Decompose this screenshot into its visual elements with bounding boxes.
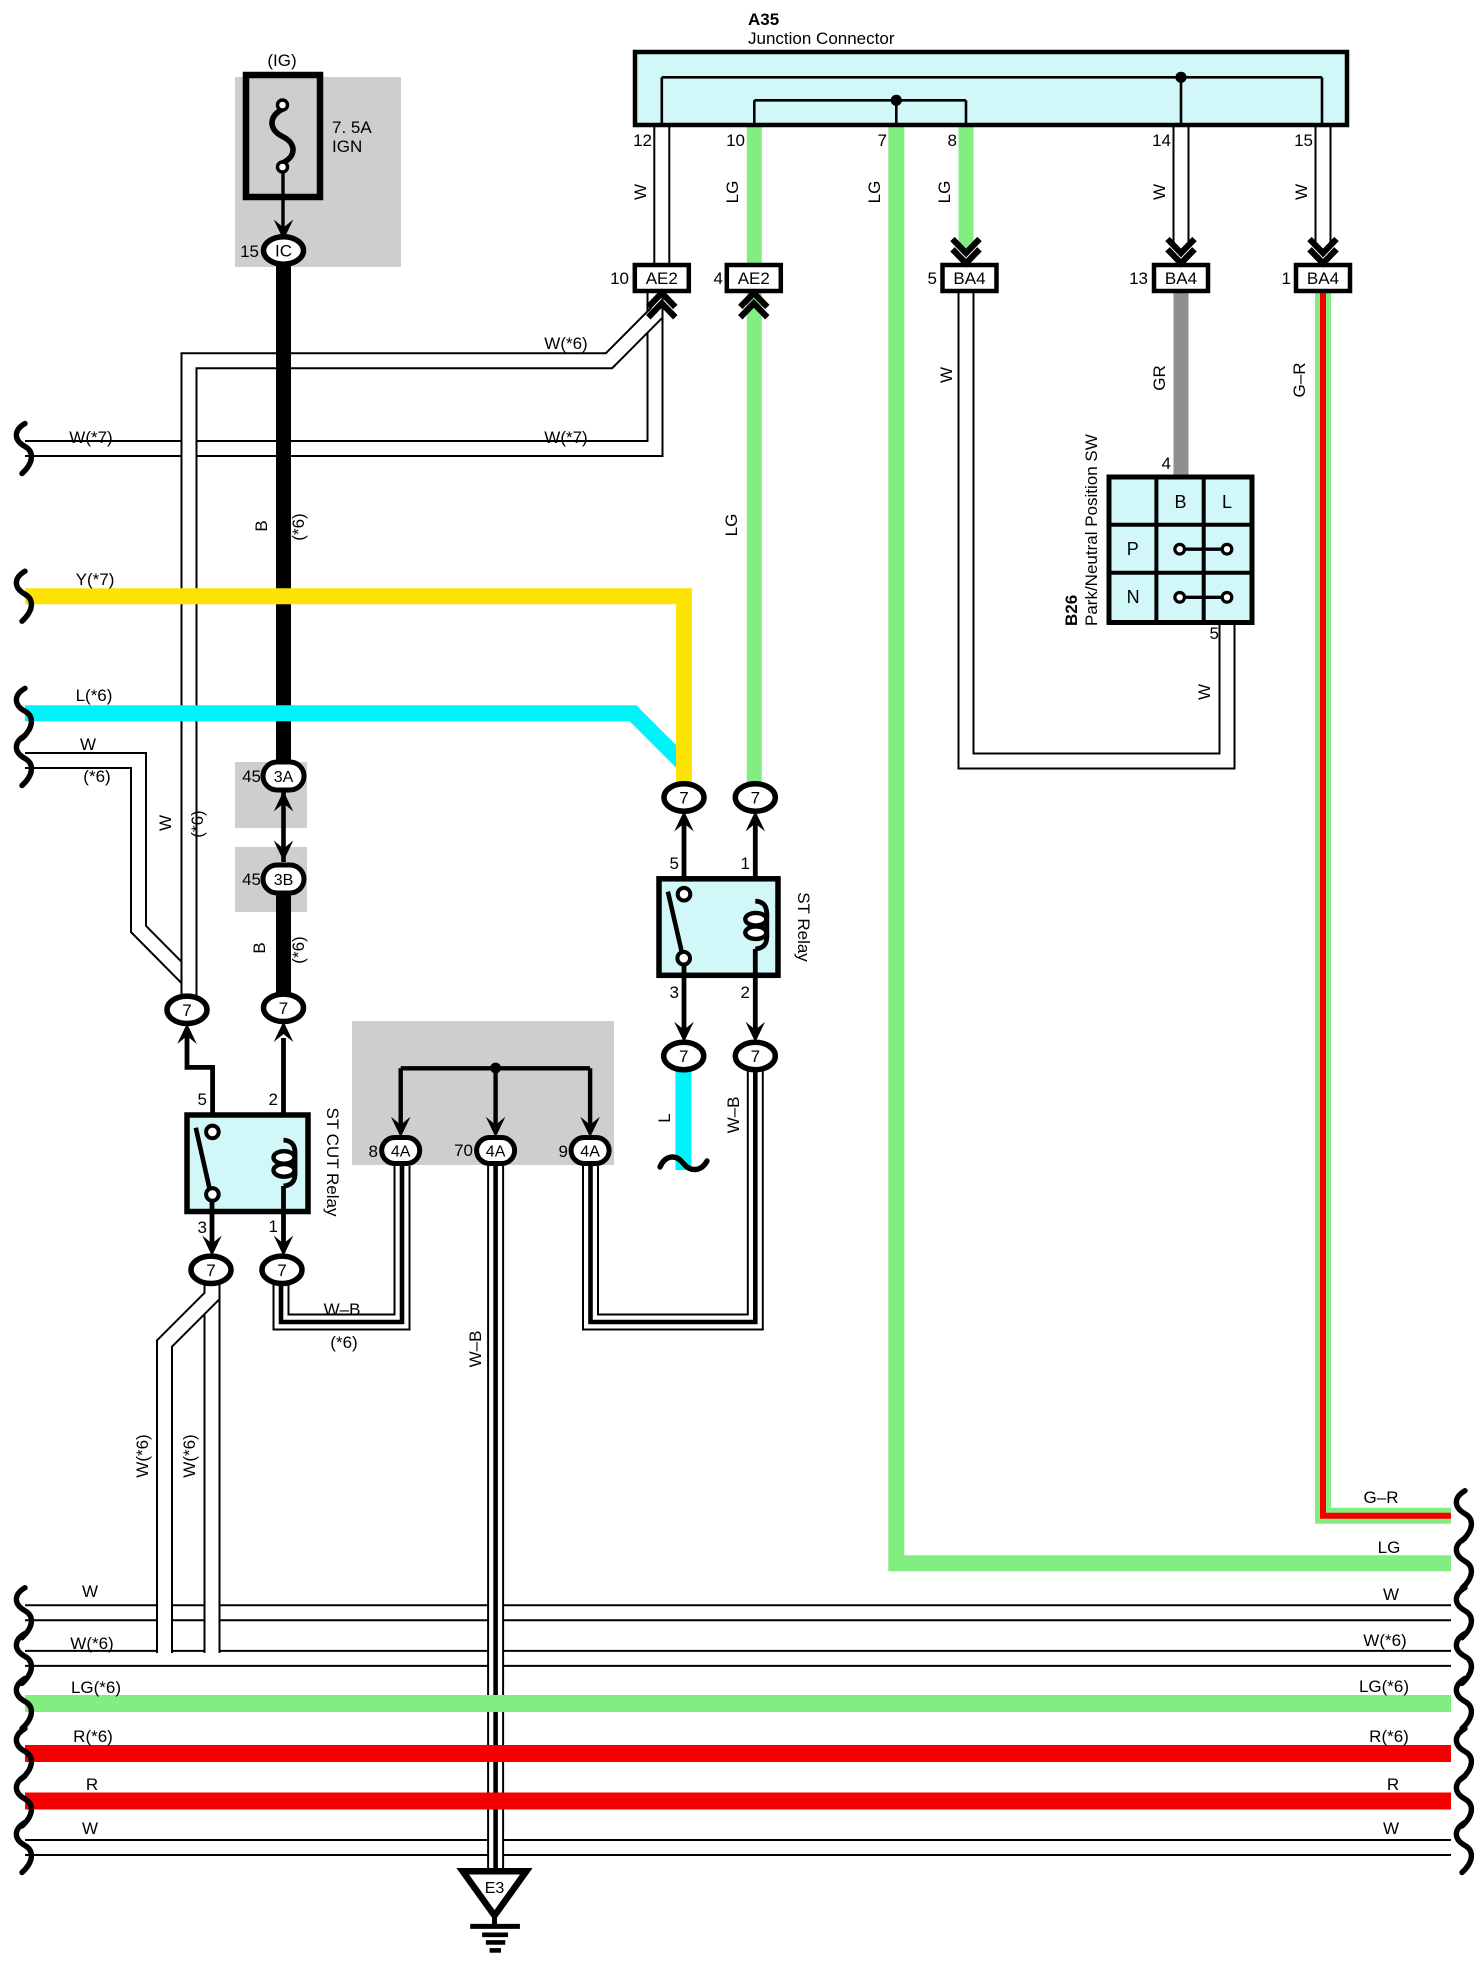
svg-text:10: 10 bbox=[610, 269, 629, 288]
svg-text:R: R bbox=[1387, 1775, 1399, 1794]
arrow from ST CUT pin3 bbox=[202, 1236, 222, 1257]
break symbol right edge y1563 bbox=[1456, 1538, 1471, 1588]
arrow into junction 7 yellow bbox=[674, 811, 694, 832]
wire W-B from 4A-70 to ground E3 bbox=[487, 1166, 504, 1868]
svg-text:3: 3 bbox=[198, 1218, 207, 1237]
wire ST CUT pin3 bbox=[210, 1199, 215, 1250]
wire LG pin10 A35 through AE2-4 to ST relay bbox=[747, 124, 762, 785]
svg-text:N: N bbox=[1127, 587, 1140, 607]
connector 3A bbox=[263, 762, 304, 790]
arrow into 3A bbox=[274, 791, 294, 812]
svg-text:W: W bbox=[156, 815, 175, 831]
svg-text:W: W bbox=[82, 1582, 98, 1601]
ground bar 3 bbox=[486, 1940, 505, 1945]
black tracer of W-B wires bbox=[281, 1068, 755, 1868]
connector 4A-70 bbox=[477, 1138, 515, 1164]
wire L cyan below ST relay pin3 bbox=[675, 1068, 691, 1170]
connector BA4 pin5 box bbox=[928, 265, 997, 291]
fuse 7.5A IGN box bbox=[246, 75, 320, 197]
svg-text:IGN: IGN bbox=[332, 137, 362, 156]
svg-text:7: 7 bbox=[182, 1001, 191, 1020]
svg-text:(*6): (*6) bbox=[188, 810, 207, 837]
4A internal bus bbox=[401, 1063, 590, 1131]
arrow into 4A-8 bbox=[391, 1117, 411, 1138]
svg-text:3: 3 bbox=[670, 983, 679, 1002]
svg-text:W–B: W–B bbox=[466, 1331, 485, 1368]
svg-text:4A: 4A bbox=[391, 1144, 411, 1161]
svg-text:P: P bbox=[1127, 539, 1139, 559]
ground wire stem bbox=[492, 1911, 497, 1926]
svg-text:W(*7): W(*7) bbox=[544, 428, 587, 447]
svg-text:W(*6): W(*6) bbox=[133, 1434, 152, 1477]
wire ST CUT pin5 bbox=[187, 1036, 213, 1127]
bus wire R lower bbox=[25, 1793, 1451, 1810]
junction 7 green bbox=[735, 784, 775, 811]
arrow into BA4-1 bbox=[1310, 239, 1337, 263]
svg-text:1: 1 bbox=[741, 854, 750, 873]
svg-text:5: 5 bbox=[198, 1090, 207, 1109]
svg-text:B: B bbox=[1174, 492, 1186, 512]
arrow into AE2-10 bbox=[648, 293, 675, 317]
junction 7 below ST relay pin3 bbox=[664, 1042, 704, 1069]
junction 7 below ST CUT pin3 bbox=[191, 1256, 231, 1283]
connector 3B bbox=[263, 865, 304, 893]
svg-text:W–B: W–B bbox=[724, 1097, 743, 1134]
svg-text:LG: LG bbox=[935, 181, 954, 204]
ST relay coil bbox=[745, 901, 767, 949]
svg-text:B: B bbox=[252, 520, 271, 531]
svg-text:BA4: BA4 bbox=[1307, 269, 1339, 288]
svg-text:A35: A35 bbox=[748, 10, 779, 29]
svg-text:W: W bbox=[80, 735, 96, 754]
svg-text:W: W bbox=[1383, 1585, 1399, 1604]
ST relay box bbox=[659, 879, 778, 976]
svg-text:70: 70 bbox=[454, 1141, 473, 1160]
wire LG pin7 A35 long run to right edge bbox=[896, 124, 1451, 1563]
wire G-R red tracer bbox=[1323, 291, 1451, 1516]
svg-text:LG: LG bbox=[865, 181, 884, 204]
svg-text:BA4: BA4 bbox=[953, 269, 985, 288]
svg-text:4: 4 bbox=[714, 269, 723, 288]
svg-text:R(*6): R(*6) bbox=[1369, 1727, 1409, 1746]
svg-text:5: 5 bbox=[1210, 624, 1219, 643]
svg-text:10: 10 bbox=[726, 131, 745, 150]
bus wire W(*6) lower bbox=[25, 1650, 1451, 1667]
svg-text:7: 7 bbox=[679, 1047, 688, 1066]
svg-text:(*6): (*6) bbox=[83, 767, 110, 786]
ST CUT relay coil bbox=[274, 1140, 296, 1186]
bus wire LG(*6) lower bbox=[25, 1695, 1451, 1712]
wire W(*6) from AE2-10 diagonal to left vertical run bbox=[189, 313, 657, 996]
break symbol right edge y1801 bbox=[1456, 1776, 1471, 1826]
svg-text:AE2: AE2 bbox=[646, 269, 678, 288]
svg-text:W(*6): W(*6) bbox=[180, 1434, 199, 1477]
wire W pin14 A35 to BA4-13 bbox=[1173, 124, 1190, 249]
ground bar 1 bbox=[470, 1924, 520, 1929]
junction connector A35 box with internal buses bbox=[635, 52, 1347, 125]
wire ST relay pin1 bbox=[753, 817, 758, 901]
bus wire W bottom bbox=[25, 1839, 1451, 1856]
svg-text:7: 7 bbox=[279, 999, 288, 1018]
bus wire R(*6) lower bbox=[25, 1745, 1451, 1762]
arrow from ST CUT pin1 bbox=[274, 1236, 294, 1257]
svg-text:2: 2 bbox=[741, 983, 750, 1002]
arrow from ST relay pin2 bbox=[746, 1022, 766, 1043]
svg-text:LG(*6): LG(*6) bbox=[1359, 1677, 1409, 1696]
junction 7 below ST relay pin2 bbox=[735, 1042, 775, 1069]
svg-text:(IG): (IG) bbox=[267, 51, 296, 70]
wire W from BA4-5 to B26 pin5 bbox=[966, 291, 1227, 761]
svg-text:9: 9 bbox=[559, 1142, 568, 1161]
svg-text:45: 45 bbox=[242, 870, 261, 889]
wire W-B from ST CUT relay pin1 to 4A-8 bbox=[281, 1166, 402, 1322]
wire link 3A to 3B bbox=[281, 788, 286, 862]
svg-text:7. 5A: 7. 5A bbox=[332, 118, 372, 137]
wire ST relay pin3 bbox=[682, 963, 687, 1037]
wire W pin15 A35 to BA4-1 bbox=[1315, 124, 1332, 249]
svg-text:R: R bbox=[86, 1775, 98, 1794]
arrow into 3B bbox=[274, 841, 294, 862]
connector AE2 pin4 box bbox=[714, 265, 781, 291]
break symbol left edge y1658 bbox=[16, 1633, 31, 1683]
wire W(*6) straight from ST CUT relay pin3 bbox=[204, 1282, 221, 1653]
svg-text:W: W bbox=[1195, 684, 1214, 700]
svg-text:4A: 4A bbox=[580, 1144, 600, 1161]
break symbol right edge y1612 bbox=[1456, 1588, 1471, 1638]
arrow into BA4-13 bbox=[1168, 239, 1195, 263]
svg-text:G–R: G–R bbox=[1364, 1488, 1399, 1507]
connector 4A-9 bbox=[571, 1138, 609, 1164]
svg-text:7: 7 bbox=[206, 1261, 215, 1280]
svg-text:W: W bbox=[1150, 184, 1169, 200]
connector IC junction bbox=[264, 237, 304, 264]
svg-text:(*6): (*6) bbox=[289, 513, 308, 540]
arrow into junction 7 right bbox=[274, 1022, 294, 1043]
switch B26 box grid bbox=[1109, 477, 1252, 623]
junction 7 below ST CUT pin1 bbox=[262, 1256, 302, 1283]
svg-text:3B: 3B bbox=[274, 872, 294, 889]
wire Y(*7) yellow from left edge to junction 7 bbox=[25, 596, 684, 785]
junction 7 left bbox=[167, 996, 207, 1023]
svg-text:W: W bbox=[1383, 1819, 1399, 1838]
svg-text:(*6): (*6) bbox=[289, 936, 308, 963]
arrow into 4A-9 bbox=[580, 1117, 600, 1138]
wire W pin12 A35 to AE2-10 bbox=[653, 124, 670, 264]
break symbol left edge y1612 bbox=[16, 1588, 31, 1638]
svg-text:7: 7 bbox=[277, 1261, 286, 1280]
svg-text:12: 12 bbox=[633, 131, 652, 150]
svg-text:W: W bbox=[82, 1819, 98, 1838]
wire ST relay pin5 bbox=[682, 817, 687, 889]
arrow into 4A-70 bbox=[486, 1117, 506, 1138]
wire LG pin8 A35 stub to BA4-5 bbox=[959, 124, 974, 249]
svg-text:W: W bbox=[1292, 184, 1311, 200]
break symbol right edge y1515 bbox=[1456, 1491, 1471, 1541]
break symbol left edge y1703 bbox=[16, 1679, 31, 1729]
ground bar 2 bbox=[482, 1933, 508, 1938]
connector 3B background panel bbox=[235, 847, 307, 912]
connector 4A-8 bbox=[382, 1138, 420, 1164]
wire G-R green part from BA4-1 to right edge bbox=[1323, 291, 1451, 1516]
svg-text:W(*6): W(*6) bbox=[70, 1634, 113, 1653]
svg-text:4: 4 bbox=[1162, 454, 1171, 473]
break symbol left edge y448 bbox=[16, 424, 31, 474]
svg-text:W(*7): W(*7) bbox=[69, 428, 112, 447]
connector BA4 pin13 box bbox=[1129, 265, 1208, 291]
bus wire W lower bbox=[25, 1604, 1451, 1621]
svg-text:G–R: G–R bbox=[1290, 363, 1309, 398]
B26 contact N bbox=[1175, 593, 1232, 603]
svg-text:3A: 3A bbox=[274, 769, 294, 786]
svg-text:7: 7 bbox=[679, 789, 688, 808]
fuse element bbox=[272, 100, 293, 172]
break symbol right edge y1753 bbox=[1456, 1729, 1471, 1779]
arrow into junction 7 green bbox=[746, 811, 766, 832]
arrow into AE2-4 bbox=[740, 293, 767, 317]
connector AE2 pin10 box bbox=[610, 265, 689, 291]
svg-text:7: 7 bbox=[878, 131, 887, 150]
svg-text:8: 8 bbox=[369, 1142, 378, 1161]
wire L(*6) cyan from left edge bbox=[25, 713, 682, 762]
svg-text:W–B: W–B bbox=[324, 1300, 361, 1319]
break symbol left edge y1847 bbox=[16, 1823, 31, 1873]
svg-text:ST CUT Relay: ST CUT Relay bbox=[323, 1108, 342, 1217]
svg-text:L: L bbox=[1222, 492, 1232, 512]
break symbol left edge y1801 bbox=[16, 1776, 31, 1826]
svg-text:5: 5 bbox=[928, 269, 937, 288]
connector BA4 pin1 box bbox=[1282, 265, 1350, 291]
svg-text:GR: GR bbox=[1150, 365, 1169, 391]
break symbol left edge y760 bbox=[16, 736, 31, 786]
svg-text:W: W bbox=[631, 184, 650, 200]
svg-text:14: 14 bbox=[1152, 131, 1171, 150]
B26 contact P bbox=[1175, 544, 1232, 554]
svg-text:W: W bbox=[937, 367, 956, 383]
svg-text:LG: LG bbox=[722, 514, 741, 537]
svg-text:2: 2 bbox=[269, 1090, 278, 1109]
arrow into junction 7 left bbox=[177, 1024, 197, 1045]
svg-text:1: 1 bbox=[269, 1217, 278, 1236]
ST relay switch bbox=[668, 888, 690, 965]
svg-text:B: B bbox=[250, 942, 269, 953]
break symbol left edge y596 bbox=[16, 571, 31, 621]
break symbol right edge y1847 bbox=[1456, 1823, 1471, 1873]
svg-text:E3: E3 bbox=[485, 1880, 505, 1897]
connector 4A background panel bbox=[352, 1021, 614, 1165]
svg-text:(*6): (*6) bbox=[330, 1333, 357, 1352]
svg-text:8: 8 bbox=[948, 131, 957, 150]
svg-text:1: 1 bbox=[1282, 269, 1291, 288]
wire ST relay pin2 bbox=[753, 949, 758, 1037]
svg-text:L(*6): L(*6) bbox=[76, 686, 113, 705]
svg-text:W(*6): W(*6) bbox=[544, 334, 587, 353]
svg-text:4A: 4A bbox=[486, 1144, 506, 1161]
svg-text:W(*6): W(*6) bbox=[1363, 1631, 1406, 1650]
connector 3A background panel bbox=[235, 762, 307, 828]
svg-text:LG: LG bbox=[1378, 1538, 1401, 1557]
svg-text:15: 15 bbox=[1294, 131, 1313, 150]
wire ST CUT pin2 bbox=[281, 1038, 286, 1140]
ground bar 4 bbox=[490, 1948, 501, 1953]
svg-text:LG(*6): LG(*6) bbox=[71, 1678, 121, 1697]
svg-text:R(*6): R(*6) bbox=[73, 1727, 113, 1746]
break symbol left edge y1753 bbox=[16, 1729, 31, 1779]
ground E3 triangle bbox=[463, 1871, 527, 1915]
svg-text:AE2: AE2 bbox=[738, 269, 770, 288]
wire B fuse IC to 3A bbox=[276, 258, 291, 776]
wire B 3B to ST CUT relay pin2 junction 7 bbox=[276, 888, 291, 1000]
wire fuse to IC bbox=[281, 172, 284, 234]
svg-text:45: 45 bbox=[242, 767, 261, 786]
svg-text:ST Relay: ST Relay bbox=[794, 892, 813, 962]
svg-text:7: 7 bbox=[751, 1047, 760, 1066]
wire W-B from ST relay pin2 to 4A-9 bbox=[591, 1068, 756, 1322]
ST CUT relay switch bbox=[196, 1126, 219, 1201]
arrow from ST relay pin3 bbox=[674, 1022, 694, 1043]
svg-text:B26: B26 bbox=[1062, 595, 1081, 626]
svg-text:Junction Connector: Junction Connector bbox=[748, 29, 895, 48]
arrow into IC bbox=[274, 220, 294, 241]
break symbol right edge y1658 bbox=[1456, 1633, 1471, 1683]
break symbol left edge y713 bbox=[16, 688, 31, 738]
svg-text:IC: IC bbox=[275, 242, 292, 261]
svg-text:5: 5 bbox=[670, 854, 679, 873]
svg-text:L: L bbox=[655, 1113, 674, 1122]
junction 7 yellow bbox=[664, 784, 704, 811]
wire W(*6) from left edge to junction 7 bbox=[25, 761, 189, 997]
junction 7 right bbox=[264, 994, 304, 1021]
arrow into BA4-5 bbox=[953, 239, 980, 263]
wire W(*6) diagonal from ST CUT relay pin3 bbox=[165, 1283, 213, 1653]
svg-text:7: 7 bbox=[751, 789, 760, 808]
break symbol L wire bbox=[660, 1157, 707, 1170]
svg-text:Park/Neutral Position SW: Park/Neutral Position SW bbox=[1082, 434, 1101, 626]
fuse background panel bbox=[235, 77, 401, 267]
wire W(*7) from AE2-10 to left edge bbox=[25, 292, 655, 449]
ST CUT relay box bbox=[187, 1115, 308, 1212]
wire GR gray from BA4-13 to B26 pin4 bbox=[1174, 291, 1189, 478]
break symbol right edge y1703 bbox=[1456, 1679, 1471, 1729]
svg-text:15: 15 bbox=[240, 242, 259, 261]
svg-text:BA4: BA4 bbox=[1165, 269, 1197, 288]
svg-text:13: 13 bbox=[1129, 269, 1148, 288]
svg-text:LG: LG bbox=[723, 181, 742, 204]
wire ST CUT pin1 bbox=[281, 1186, 286, 1250]
svg-text:Y(*7): Y(*7) bbox=[76, 570, 115, 589]
